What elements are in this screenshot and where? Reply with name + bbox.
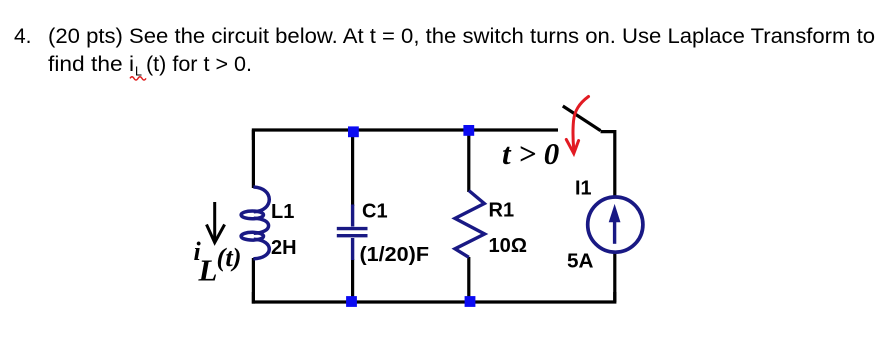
wire: resistor branch lower [467, 257, 470, 302]
red closing arrow on switch [566, 97, 588, 154]
spell-check squiggle under iL [130, 77, 146, 80]
current source I1 arrow [609, 206, 619, 244]
svg-text:(t) for t > 0.: (t) for t > 0. [146, 53, 252, 76]
svg-text:L: L [198, 253, 218, 288]
svg-text:4.: 4. [14, 25, 32, 48]
wire: switch to source top segment [601, 132, 615, 197]
problem text line 2 [48, 53, 252, 79]
svg-text:C1: C1 [362, 201, 388, 223]
svg-text:R1: R1 [489, 200, 515, 222]
wire: capacitor branch upper [351, 130, 354, 206]
resistor R1 zigzag [455, 191, 485, 258]
svg-text:5A: 5A [567, 251, 594, 273]
wire: left branch lower segment [252, 258, 255, 304]
inductor L1 coil [241, 187, 269, 259]
wire: capacitor branch lower [351, 259, 354, 302]
svg-text:L1: L1 [271, 201, 294, 223]
svg-text:find the i: find the i [48, 53, 134, 76]
wire: bottom rail [253, 292, 614, 302]
wire: top rail from left corner to switch [253, 130, 558, 140]
label iL(t) [194, 237, 242, 288]
wire: resistor branch upper [467, 130, 470, 192]
svg-text:(1/20)F: (1/20)F [360, 244, 430, 266]
node square top-left junction [348, 126, 359, 137]
capacitor C1 [337, 205, 368, 261]
svg-text:2H: 2H [271, 237, 297, 259]
wire: source bottom segment [613, 253, 616, 302]
iL(t) current arrow [207, 202, 225, 243]
node square bottom-right junction [465, 296, 476, 307]
problem text line 1 [14, 25, 875, 48]
svg-text:10Ω: 10Ω [489, 235, 528, 257]
current source I1 circle [588, 197, 643, 252]
svg-text:t > 0: t > 0 [502, 136, 559, 171]
svg-text:(t): (t) [217, 242, 242, 272]
node square bottom-left junction [346, 296, 357, 307]
switch S1 blade (open, t=0 closing) [563, 106, 601, 131]
svg-text:(20 pts) See the circuit below: (20 pts) See the circuit below. At t = 0… [48, 25, 875, 48]
svg-text:I1: I1 [575, 178, 592, 200]
wire: left branch upper segment [252, 130, 255, 188]
node square top-right junction [463, 125, 474, 136]
